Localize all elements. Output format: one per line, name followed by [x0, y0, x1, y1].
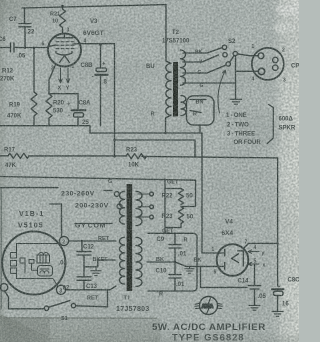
node grid junction dots — [24, 47, 26, 49]
ground BK — [185, 266, 194, 273]
wire C10 bottom to V4 — [201, 266, 248, 287]
transformer T2 core — [173, 62, 178, 117]
vibrator unit V1B-1 — [2, 231, 65, 294]
resistor R21 — [60, 6, 66, 34]
cable bubble BN R — [187, 96, 215, 125]
V4 pin7 wire — [245, 243, 278, 247]
transformer T1 primary top coil — [119, 191, 124, 224]
transformer T1 secondary bottom coil — [136, 237, 142, 286]
wire grid to R19 — [33, 48, 35, 92]
main mid rail with R17 R23 — [0, 155, 8, 157]
vibrator pin 3 — [56, 285, 65, 294]
transformer T2 secondary BN R winding — [181, 96, 186, 116]
switch S2 — [222, 45, 237, 66]
capacitor C10 — [169, 262, 181, 291]
resistor R20 — [46, 94, 52, 126]
V4 plates — [218, 250, 225, 270]
wire tap G — [183, 65, 225, 73]
left edge line power box — [0, 188, 2, 309]
rail to R22 top area — [115, 140, 196, 157]
vibrator pin 2 — [59, 236, 68, 245]
wire V3 pin4 — [81, 44, 115, 157]
vibrator pin 1 — [0, 284, 8, 292]
wire GY COM — [75, 223, 112, 225]
mains line 230-260V — [0, 188, 112, 191]
wire R20 top to C8A — [49, 93, 78, 95]
resistor R23 10K — [126, 154, 146, 159]
vibrator internals — [11, 244, 60, 287]
transformer T1 primary bottom coil — [119, 237, 124, 284]
wire BK mid — [147, 261, 175, 263]
grain overlay — [276, 4, 308, 16]
capacitor C6 — [0, 43, 48, 52]
rail B+ to V4 plate — [90, 133, 218, 253]
ground under C14 — [249, 305, 260, 310]
heater arrows X Y under V3 — [59, 68, 62, 83]
transformer T2 secondary top — [181, 50, 186, 85]
transformer T1 core — [127, 184, 133, 291]
secondary top tap circles — [150, 192, 154, 196]
wire BK to V4 pin6 — [175, 262, 218, 266]
wire tap G2 — [183, 82, 236, 84]
resistor R17 — [8, 153, 29, 158]
resistor R19 — [31, 92, 37, 126]
V4 heater pins 4 5 arrows — [248, 250, 259, 253]
capacitor C8A electrolytic — [72, 94, 86, 126]
top rail wire — [22, 5, 166, 8]
resistor R23b — [178, 207, 183, 224]
capacitor C14 — [248, 264, 260, 305]
V4 cathode — [232, 251, 244, 266]
wire tap BK — [183, 48, 222, 53]
capacitor C8B electrolytic — [96, 45, 108, 126]
wire pin2 to C12 — [69, 240, 116, 242]
R22 left rail — [165, 179, 181, 233]
selector arrow — [218, 70, 226, 113]
mid ground C12 C13 — [84, 260, 115, 267]
G line rail — [0, 177, 196, 207]
ground under C8C — [272, 311, 283, 316]
switch S1 — [44, 306, 48, 310]
wire tap Y — [183, 55, 218, 62]
paper edge line bottom-left — [0, 318, 157, 319]
transformer T2 primary coil — [166, 5, 172, 133]
capacitor C9 — [169, 233, 181, 262]
wire S2 to ground — [235, 56, 237, 99]
capacitor C8C electrolytic — [272, 288, 284, 290]
transformer T1 secondary top coil — [136, 191, 142, 225]
capacitor C7 — [19, 8, 31, 48]
AWA logo — [195, 297, 222, 315]
C9 C10 box — [148, 233, 197, 291]
wire to plug pin4 — [236, 70, 259, 72]
bottom page-edge strip — [0, 318, 160, 342]
brace speaker notes — [267, 105, 273, 144]
wire bubble to rail — [199, 125, 201, 133]
tube V4 6X4 — [217, 244, 249, 276]
tube V3 6V6GT — [48, 34, 81, 67]
resistor R22 — [178, 189, 183, 205]
ground bus upper — [0, 126, 90, 133]
ground under S2 — [230, 99, 241, 104]
speaker plug CP — [252, 48, 284, 80]
wire to vibrator pin2 — [50, 204, 62, 236]
cathode wire to R20 — [49, 65, 56, 95]
capacitor C12 — [77, 241, 91, 277]
capacitor C13 — [66, 277, 116, 290]
wire to plug pin1 — [237, 54, 258, 56]
wire RET to S1 — [107, 290, 109, 307]
